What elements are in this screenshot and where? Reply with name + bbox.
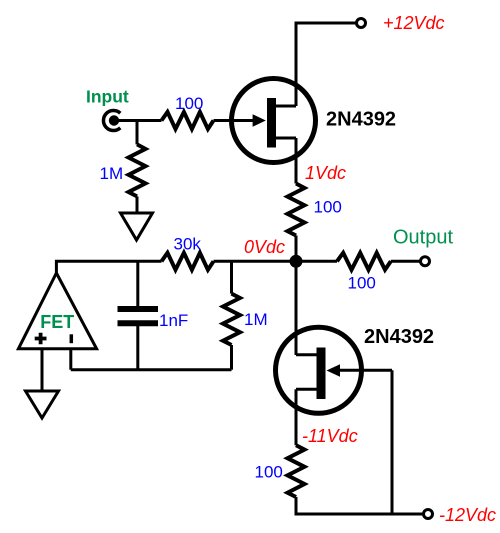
capacitor 1nF (118, 306, 159, 312)
svg-text:-11Vdc: -11Vdc (302, 426, 358, 446)
wire resistor to node (295, 236, 298, 262)
wire bottom rail (296, 497, 423, 514)
wire +12V rail (296, 23, 356, 106)
wire capacitor top (136, 261, 139, 306)
terminal -12Vdc (424, 510, 433, 519)
wire resistor to Q1 gate (214, 119, 263, 122)
op-amp minus input mark (70, 334, 74, 343)
ground (input) (121, 213, 153, 240)
svg-text:Output: Output (393, 227, 453, 249)
wire input to gate resistor (114, 119, 162, 122)
svg-text:+12Vdc: +12Vdc (383, 13, 445, 33)
terminal Output (421, 257, 430, 266)
wire op-amp output to node (56, 261, 161, 273)
svg-text:100: 100 (175, 94, 203, 113)
svg-text:FET: FET (40, 312, 74, 332)
resistor 100 (output) (337, 253, 391, 270)
resistor 100 (input series) (162, 112, 214, 129)
wire op-amp minus input to feedback rail (69, 349, 72, 370)
resistor 100 (top source) (288, 184, 305, 236)
wire feedback bottom rail (71, 368, 232, 371)
wire 1M shunt top (230, 261, 233, 293)
svg-text:30k: 30k (174, 235, 202, 254)
svg-text:1M: 1M (100, 164, 124, 183)
svg-text:Input: Input (86, 87, 129, 107)
wire Q2 source down (295, 389, 298, 445)
wire 30k to node (214, 260, 297, 263)
op-amp U1 (FET buffer) (18, 273, 96, 349)
terminal +12Vdc (357, 19, 366, 28)
resistor 1M (shunt) (223, 294, 240, 345)
svg-text:0Vdc: 0Vdc (244, 237, 285, 257)
resistor 100 (bottom source) (288, 445, 305, 497)
wire junction down to 1M (136, 121, 139, 145)
wire output resistor to terminal (391, 260, 420, 263)
wire op-amp plus input to ground (41, 349, 44, 391)
ground (op-amp) (26, 391, 59, 418)
resistor 30k (162, 253, 214, 270)
svg-text:100: 100 (348, 274, 376, 293)
wire node down to Q2 drain (295, 261, 298, 355)
svg-text:100: 100 (255, 463, 283, 482)
node 0Vdc junction (290, 255, 303, 268)
svg-text:-12Vdc: -12Vdc (439, 505, 496, 525)
op-amp plus input mark (35, 333, 47, 344)
transistor Q2 2N4392 (bottom JFET) (276, 327, 393, 413)
transistor Q1 2N4392 (top JFET) (232, 79, 316, 163)
wire 1M shunt bottom (230, 345, 233, 370)
svg-text:100: 100 (314, 198, 342, 217)
svg-text:2N4392: 2N4392 (364, 326, 434, 348)
wire Q1 source down (295, 138, 298, 184)
wire 1M to ground (136, 196, 139, 213)
input connector jack (103, 111, 120, 131)
svg-text:1nF: 1nF (159, 311, 188, 330)
resistor 1M (input bias) (129, 144, 146, 196)
svg-text:1Vdc: 1Vdc (305, 163, 346, 183)
wire capacitor bottom (136, 326, 139, 370)
svg-text:1M: 1M (244, 310, 268, 329)
svg-text:2N4392: 2N4392 (326, 109, 396, 131)
wire node to output resistor (296, 260, 337, 263)
wire gate return (391, 370, 394, 514)
